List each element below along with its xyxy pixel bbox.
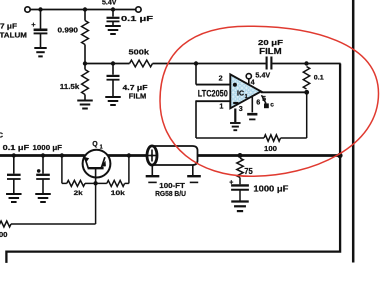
plus marker inside (233, 83, 237, 87)
capacitor 0.1uF top (112, 10, 114, 17)
resistor 100 feedback (264, 135, 281, 141)
wire A: rail2 right corner down to bottom loop (6, 64, 340, 263)
svg-text:+: + (31, 20, 36, 29)
svg-text:1: 1 (219, 102, 223, 111)
resistor 75 (237, 158, 243, 177)
svg-text:1: 1 (245, 94, 248, 100)
wire main output rail (0, 154, 85, 157)
Q1 base bar (88, 167, 104, 169)
terminal right (136, 7, 141, 12)
Q1 base lead down (95, 168, 97, 183)
svg-text:C: C (0, 130, 4, 139)
Q1 emitter lead right with arrow (101, 157, 105, 168)
capacitor 0.1uF bottom-left (13, 156, 15, 174)
svg-text:4.7 μF: 4.7 μF (123, 85, 149, 92)
resistor 2k (61, 156, 63, 184)
output wire pin 5 (261, 91, 307, 93)
wire top rail (30, 9, 135, 11)
node junction dots top rail (38, 7, 42, 11)
capacitor C1 47uF tantalum (40, 10, 42, 29)
terminal input left (25, 7, 30, 12)
coax cable 100-FT RG58 B/U (152, 146, 198, 165)
transistor Q1 (83, 150, 111, 178)
svg-text:10k: 10k (111, 190, 125, 197)
svg-text:1000 μF: 1000 μF (33, 145, 63, 152)
minus marker inside (233, 102, 238, 104)
Q1 collector lead left (85, 157, 89, 168)
coax center cross (151, 150, 153, 162)
svg-text:0.1 μF: 0.1 μF (121, 16, 154, 23)
svg-text:FILM: FILM (259, 46, 282, 56)
svg-text:100: 100 (264, 146, 277, 153)
capacitor 4.7uF FILM (112, 64, 114, 75)
svg-text:6: 6 (256, 97, 260, 106)
svg-text:2k: 2k (74, 190, 83, 197)
base drive wire to 100 resistor (cut at left) (95, 183, 97, 224)
capacitor 1000uF bottom-left electrolytic (42, 156, 44, 174)
resistor R 0.990 (84, 10, 86, 21)
wire -input and feedback loop left (196, 100, 231, 102)
svg-text:75: 75 (244, 167, 253, 176)
svg-text:RG58 B/U: RG58 B/U (155, 191, 186, 198)
capacitor 20uF FILM (series in rail2) (266, 57, 268, 70)
svg-text:11.5k: 11.5k (60, 84, 80, 91)
resistor 11.5k (84, 64, 86, 70)
pin 6 to ground (251, 96, 253, 112)
coax shield grounds (151, 165, 153, 175)
svg-text:Q: Q (92, 141, 98, 148)
Q1 arrow blobs (84, 157, 90, 163)
pin 4 V+ terminal (248, 79, 250, 85)
svg-text:0.1: 0.1 (314, 74, 324, 81)
test point square node C (262, 95, 267, 103)
svg-text:3: 3 (239, 104, 243, 113)
svg-text:0.990: 0.990 (58, 27, 79, 34)
ground below C1 (34, 47, 46, 49)
wire feedback bottom (196, 137, 264, 139)
svg-text:0.1 μF: 0.1 μF (3, 145, 30, 152)
pin 3 V- to ground (234, 109, 236, 123)
wire to +input (195, 64, 197, 85)
ground below 4.7uF (105, 96, 121, 98)
svg-text:FILM: FILM (129, 93, 147, 100)
resistor 500k (130, 60, 153, 67)
svg-text:IC: IC (237, 90, 244, 97)
wire rail2 (85, 63, 128, 65)
svg-text:2: 2 (219, 73, 223, 82)
wire B: vertical bus right (352, 0, 355, 263)
svg-text:5.4V: 5.4V (102, 0, 117, 6)
capacitor 1000uF output (239, 178, 241, 185)
svg-text:1: 1 (100, 144, 103, 150)
svg-text:5.4V: 5.4V (255, 72, 270, 79)
svg-text:500k: 500k (129, 50, 150, 57)
resistor 10k (96, 182, 107, 184)
svg-text:4: 4 (251, 77, 255, 86)
ground below 0.1uF (105, 25, 121, 27)
svg-text:c: c (270, 102, 274, 109)
svg-text:1000 μF: 1000 μF (253, 184, 288, 193)
red highlight ellipse (hand drawn) (160, 26, 379, 176)
svg-text:100: 100 (0, 232, 8, 239)
ground below 11.5k (77, 100, 93, 102)
resistor 0.1 (303, 67, 309, 90)
svg-text:LTC2050: LTC2050 (198, 89, 228, 100)
svg-text:7 μF: 7 μF (0, 23, 18, 30)
svg-text:100-FT: 100-FT (159, 183, 185, 190)
svg-text:TALUM: TALUM (0, 32, 27, 39)
